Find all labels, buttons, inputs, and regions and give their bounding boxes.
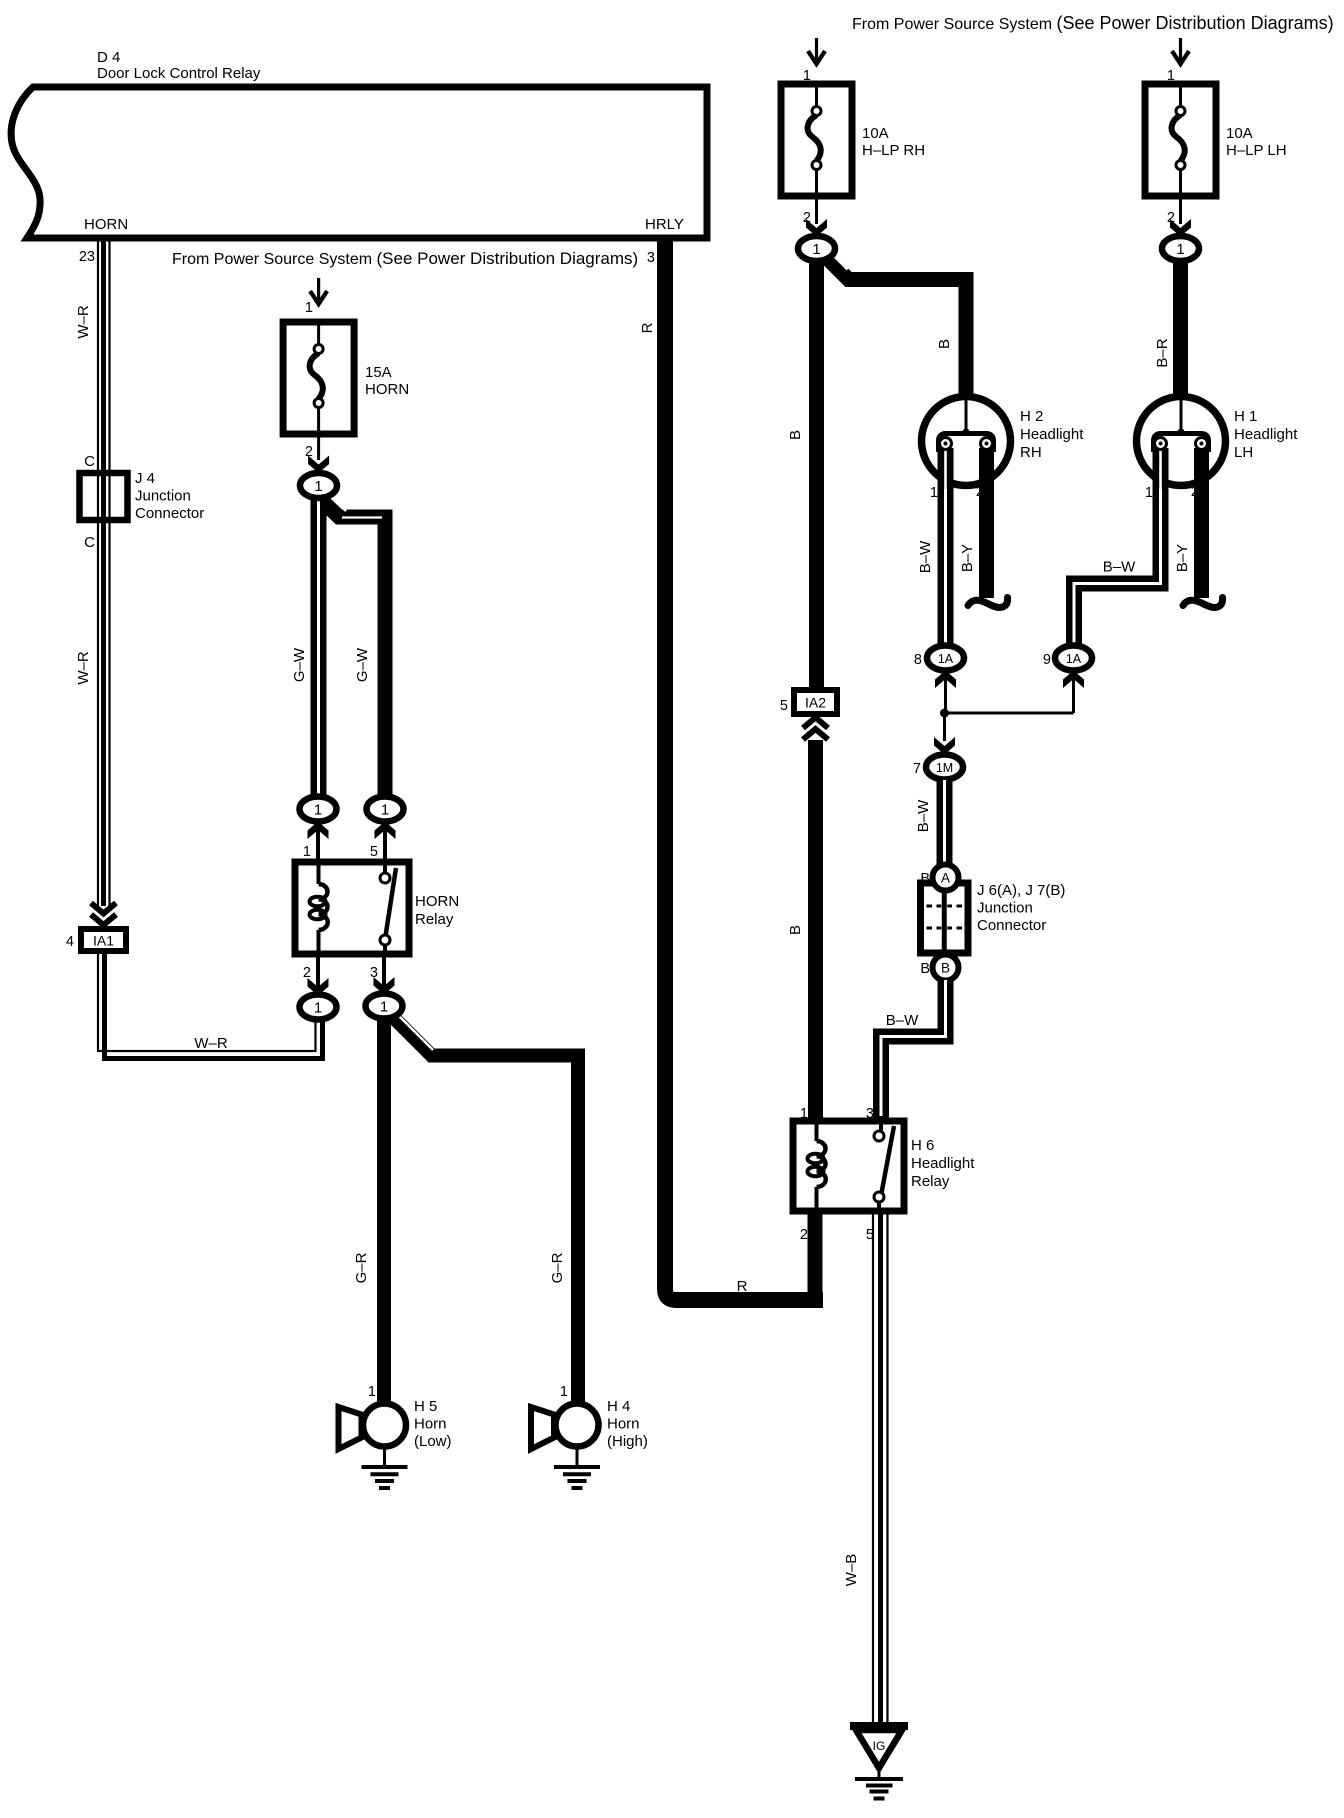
wire B-R from connector to headlight H1 pin 3	[1154, 260, 1181, 400]
svg-text:2: 2	[303, 965, 311, 981]
svg-text:IA2: IA2	[805, 695, 826, 711]
svg-text:G–W: G–W	[291, 647, 308, 682]
junction node	[940, 709, 949, 718]
relay HORN Relay	[295, 862, 459, 954]
svg-text:HORN: HORN	[415, 893, 459, 910]
svg-text:(Low): (Low)	[414, 1433, 452, 1450]
svg-text:1: 1	[1145, 485, 1153, 501]
svg-text:H 5: H 5	[414, 1398, 437, 1415]
arrowhead up into 1A (9)	[1063, 671, 1084, 689]
relay D4 Door Lock Control Relay	[11, 49, 707, 238]
fuse 10A H-LP RH	[781, 84, 925, 196]
svg-text:R: R	[639, 322, 656, 333]
svg-text:H 4: H 4	[607, 1398, 630, 1415]
headlight H1 Headlight LH	[1137, 397, 1299, 492]
svg-text:15A: 15A	[365, 364, 392, 381]
svg-text:HORN: HORN	[84, 216, 128, 233]
arrow from power source into fuse HORN	[310, 278, 327, 304]
svg-text:1M: 1M	[936, 761, 953, 775]
body ground for H2	[968, 598, 1008, 608]
svg-text:J 6(A), J 7(B): J 6(A), J 7(B)	[977, 882, 1065, 899]
svg-text:7: 7	[913, 761, 921, 777]
wire B from IA2 to headlight relay pin 1	[787, 740, 816, 1124]
connector 1 below horn relay pin 3	[366, 954, 403, 1019]
connector 1M pin 7	[913, 755, 963, 780]
arrow from power source into fuse H-LP LH	[1172, 38, 1189, 64]
junction connector J6(A), J7(B)	[921, 882, 1066, 953]
wire G-W branch to horn relay pin 5	[321, 500, 385, 799]
svg-text:W–R: W–R	[75, 305, 92, 339]
connector 1 below fuse H-LP RH	[798, 236, 835, 261]
connector 1 below horn relay pin 2	[300, 954, 337, 1020]
relay H6 Headlight Relay	[793, 1121, 975, 1211]
svg-text:Junction: Junction	[135, 488, 191, 505]
svg-text:B–W: B–W	[886, 1012, 919, 1029]
svg-text:1: 1	[303, 844, 311, 860]
svg-text:From Power Source System (See: From Power Source System (See Power Dist…	[172, 249, 638, 268]
ground IG	[850, 1726, 908, 1799]
svg-text:(High): (High)	[607, 1433, 648, 1450]
wire B branch to headlight H2 pin 3	[824, 250, 966, 400]
arrowhead up into 1A (8)	[935, 671, 956, 689]
svg-text:B: B	[941, 961, 950, 976]
svg-text:G–R: G–R	[353, 1252, 370, 1283]
connector 1 above horn relay pin 1	[300, 797, 337, 863]
svg-text:H 1: H 1	[1234, 408, 1257, 425]
svg-text:B–W: B–W	[1103, 559, 1136, 576]
svg-text:5: 5	[780, 698, 788, 714]
svg-text:1: 1	[368, 1384, 376, 1400]
svg-text:D 4: D 4	[97, 49, 120, 66]
svg-text:1A: 1A	[938, 652, 954, 666]
wire B main line down to IA2	[787, 260, 817, 690]
svg-text:1: 1	[305, 300, 313, 316]
svg-text:B: B	[787, 430, 804, 440]
svg-text:R: R	[737, 1278, 748, 1295]
junction connector J4	[80, 470, 205, 522]
wire B-Y from H1 pin 2 to body ground	[1174, 489, 1202, 598]
svg-text:1: 1	[560, 1384, 568, 1400]
body ground for H1	[1183, 598, 1223, 608]
wire B-W from H1 pin 1 jog to connector 1A	[1074, 489, 1161, 647]
connector circle B	[933, 955, 959, 981]
svg-text:2: 2	[800, 1227, 808, 1243]
wire G-W to horn relay pin 1	[291, 496, 371, 799]
connector IA1 pin 4	[66, 929, 126, 951]
svg-text:LH: LH	[1234, 444, 1253, 461]
svg-text:H–LP LH: H–LP LH	[1226, 142, 1287, 159]
svg-text:B: B	[936, 339, 953, 349]
wire B-W from circle B jog to headlight relay pin 3	[881, 980, 946, 1121]
arrow from power source into fuse H-LP RH	[808, 38, 825, 64]
arrow below IA2	[803, 718, 828, 740]
svg-text:RH: RH	[1020, 444, 1042, 461]
wire W-R from IA1 down, right, up to horn relay pin 2 connector	[98, 952, 323, 1059]
svg-text:H 2: H 2	[1020, 408, 1043, 425]
svg-text:W–B: W–B	[843, 1554, 860, 1587]
connector 1A pin 8	[914, 646, 964, 671]
horn H4 Horn (High) with ground	[531, 1398, 648, 1488]
wire splice lines to 1A connectors	[944, 672, 1074, 741]
svg-text:Door Lock Control Relay: Door Lock Control Relay	[97, 65, 261, 82]
svg-text:Connector: Connector	[135, 505, 204, 522]
svg-text:9: 9	[1043, 652, 1051, 668]
wire G-R to horn H5	[353, 1018, 384, 1404]
connector IA2 pin 5	[780, 690, 837, 714]
svg-text:8: 8	[914, 652, 922, 668]
svg-text:23: 23	[79, 249, 95, 265]
svg-text:Horn: Horn	[414, 1416, 447, 1433]
wire fuse 2 to connector	[317, 434, 320, 460]
svg-text:H–LP RH: H–LP RH	[862, 142, 925, 159]
wire B-W from 1M to junction connector A	[915, 780, 945, 865]
wire B-W from H2 pin 1 to connector 1A	[917, 489, 946, 647]
svg-text:G–R: G–R	[549, 1252, 566, 1283]
svg-text:B: B	[787, 925, 804, 935]
svg-text:1A: 1A	[1066, 652, 1082, 666]
svg-text:B–R: B–R	[1154, 338, 1171, 367]
svg-text:W–R: W–R	[194, 1035, 228, 1052]
horn H5 Horn (Low) with ground	[339, 1398, 452, 1488]
arrowhead into connector	[308, 456, 329, 474]
wire W-R from D4 HORN pin 23 down to IA1	[75, 241, 110, 906]
svg-text:B–Y: B–Y	[1174, 544, 1191, 572]
svg-text:H 6: H 6	[911, 1137, 934, 1154]
wire B-Y from H2 pin 2 to body ground	[959, 489, 987, 598]
headlight H2 Headlight RH	[922, 397, 1085, 492]
svg-text:B–Y: B–Y	[959, 544, 976, 572]
fuse 10A H-LP LH	[1145, 84, 1287, 196]
svg-text:Headlight: Headlight	[911, 1155, 975, 1172]
svg-text:3: 3	[647, 250, 655, 266]
arrowhead down into 1M	[934, 737, 955, 755]
svg-text:10A: 10A	[1226, 125, 1253, 142]
wire R from D4 HRLY to headlight relay pin 2	[639, 241, 823, 1300]
arrowhead into connector LH	[1170, 219, 1191, 237]
arrow into IA1	[91, 903, 116, 925]
svg-text:B–W: B–W	[917, 540, 934, 573]
svg-text:Horn: Horn	[607, 1416, 640, 1433]
svg-text:5: 5	[370, 844, 378, 860]
svg-text:HRLY: HRLY	[645, 216, 684, 233]
svg-text:Headlight: Headlight	[1020, 426, 1084, 443]
svg-text:IG: IG	[873, 1739, 886, 1753]
fuse 15A HORN	[283, 322, 409, 434]
svg-text:HORN: HORN	[365, 381, 409, 398]
svg-text:4: 4	[66, 934, 74, 950]
svg-text:1: 1	[930, 485, 938, 501]
svg-text:B: B	[920, 961, 930, 977]
svg-text:IA1: IA1	[93, 933, 114, 949]
svg-text:Relay: Relay	[415, 911, 454, 928]
connector 1A pin 9	[1043, 646, 1092, 671]
connector 1 below fuse HORN	[300, 473, 337, 498]
wire fuse LH pin2 to connector	[1179, 196, 1182, 224]
svg-text:From Power Source System (See: From Power Source System (See Power Dist…	[852, 13, 1334, 33]
svg-text:G–W: G–W	[354, 647, 371, 682]
svg-text:A: A	[941, 871, 950, 886]
svg-text:C: C	[84, 453, 95, 470]
connector 1 below fuse H-LP LH	[1162, 236, 1199, 261]
svg-text:10A: 10A	[862, 125, 889, 142]
svg-text:Junction: Junction	[977, 900, 1033, 917]
svg-text:Headlight: Headlight	[1234, 426, 1298, 443]
wire fuse RH pin2 to connector	[815, 196, 818, 224]
svg-text:C: C	[84, 534, 95, 551]
svg-text:Relay: Relay	[911, 1173, 950, 1190]
wire G-R to horn H4	[389, 1009, 578, 1405]
connector 1 above horn relay pin 5	[367, 797, 404, 863]
svg-text:Connector: Connector	[977, 917, 1046, 934]
connector circle A	[933, 865, 959, 891]
svg-text:B–W: B–W	[915, 799, 932, 832]
svg-text:J 4: J 4	[135, 470, 155, 487]
arrowhead into connector RH	[806, 219, 827, 237]
wire W-B from headlight relay pin 5 to IG ground	[843, 1211, 888, 1722]
svg-text:W–R: W–R	[75, 651, 92, 685]
